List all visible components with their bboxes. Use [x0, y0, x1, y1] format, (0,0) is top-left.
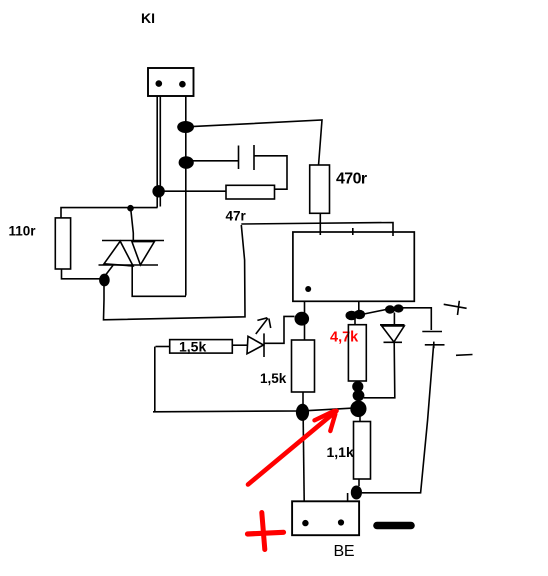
node junction blob J8	[350, 401, 366, 418]
thick black dash marker	[377, 522, 411, 530]
svg-text:47r: 47r	[226, 209, 247, 224]
node junction blob J4	[99, 274, 110, 287]
svg-text:4,7k: 4,7k	[330, 330, 359, 346]
wire 110r bottom to blob J4	[62, 269, 100, 279]
wire LED branch left vertical	[154, 347, 156, 412]
node blob chain below 4,7k lower	[353, 390, 365, 401]
wire J6 to 4,7k top	[354, 319, 356, 325]
pin dot 2 of KI	[179, 81, 186, 88]
LED D1 triangle	[247, 336, 264, 354]
wire 110r top to gate node	[61, 208, 158, 218]
capacitor C2 bottom plate	[425, 344, 445, 346]
wire J11 stub to BE box top	[347, 493, 349, 502]
node junction blob J7	[385, 305, 395, 313]
wire double line b from KI pin1	[159, 96, 161, 207]
node junction blob J2	[179, 156, 194, 169]
node junction blob J10	[296, 404, 309, 421]
LED D1 cathode bar	[263, 333, 265, 357]
wire J5 down to 1,5k vertical	[304, 325, 306, 341]
capacitor C1 right plate	[253, 145, 255, 170]
wire 1,1k bottom to J11	[358, 479, 360, 486]
X scribble mark	[444, 301, 467, 315]
diode D2 top line	[380, 324, 405, 326]
svg-text:KI: KI	[141, 10, 155, 26]
wire D2 down then left to J8	[364, 343, 395, 398]
wire triac bottom to pin2 line	[132, 266, 186, 297]
wire J10 down to BE box	[303, 420, 304, 502]
node junction blob J11	[351, 486, 362, 500]
svg-text:1,5k: 1,5k	[179, 339, 206, 355]
svg-text:BE: BE	[334, 543, 355, 560]
connector BE (terminal block)	[292, 501, 359, 535]
node junction blob J1	[177, 121, 194, 133]
capacitor C2 top plate	[422, 331, 442, 333]
pin dot 1 of KI	[156, 80, 163, 87]
wire J7 down to diode D2	[393, 313, 395, 325]
wire 1,5k to LED anode	[232, 344, 247, 346]
wire J7 right to capacitor C2	[402, 308, 431, 330]
triac V1 top line	[102, 240, 164, 242]
svg-text:470r: 470r	[336, 171, 367, 188]
pin dot 2 of BE	[338, 519, 344, 525]
triac V1 bottom line	[99, 264, 159, 266]
wire from KI pin2 down	[185, 96, 187, 296]
red annotation arrow	[248, 411, 337, 485]
resistor 1,1k	[354, 422, 371, 480]
resistor 1,5k horizontal	[170, 340, 233, 354]
node junction blob J3	[152, 185, 164, 197]
wire C1 right plate to 47r right end	[255, 156, 288, 189]
U1 bottom stub left	[304, 301, 306, 313]
diode D2 triangle	[382, 326, 404, 342]
capacitor C1 left plate	[238, 146, 240, 170]
C2 bottom tick	[433, 342, 435, 349]
U1 inner dot	[305, 286, 311, 292]
resistor 1,5k vertical	[292, 340, 315, 392]
svg-text:1,5k: 1,5k	[260, 371, 287, 386]
triac V1 right triangle	[132, 242, 155, 265]
red cross marker	[248, 513, 284, 550]
wire top rail y224 into box U1	[241, 223, 393, 237]
small dash mark	[456, 354, 473, 357]
U1 top tick	[352, 228, 354, 235]
wire C2 down to BE-right rail	[362, 346, 434, 493]
wire J8 to 1,1k top	[359, 416, 361, 423]
resistor 47r	[226, 185, 275, 199]
wire LED cathode to J5	[265, 316, 295, 343]
wire J1 to 470r top	[192, 120, 323, 166]
wire 1,5k vertical bottom to J10	[302, 392, 304, 405]
node blob chain below 4,7k upper	[352, 381, 363, 392]
svg-text:110r: 110r	[9, 224, 37, 239]
wire to 1,5k horizontal left	[156, 346, 171, 348]
wire J3 to 47r left end	[164, 190, 227, 192]
wire 470r bottom into box U1	[319, 213, 321, 235]
resistor 4,7k	[348, 325, 366, 381]
resistor 470r	[310, 165, 330, 213]
svg-text:1,1k: 1,1k	[327, 444, 354, 460]
resistor 110r	[55, 218, 70, 269]
wire J4 diagonal to triac bottom	[106, 265, 113, 274]
wire double line a from KI pin1	[156, 96, 158, 208]
U1 bottom stub mid	[358, 301, 360, 310]
wire J2 to capacitor C1	[192, 160, 238, 162]
wire J6 to J7	[364, 310, 386, 315]
wire bottom rail to J10 and J8	[153, 408, 351, 412]
node gate dot	[127, 205, 134, 212]
LED arrow barb right	[269, 319, 271, 329]
node junction blob J5	[295, 312, 310, 326]
diode D2 cathode bar	[384, 341, 403, 343]
connector KI (terminal block)	[148, 68, 194, 96]
LED arrow barb left	[257, 318, 267, 321]
IC box U1	[293, 232, 414, 301]
wire J4 down and bottom rail to 47r-junction riser	[104, 225, 246, 320]
LED arrow shaft	[256, 318, 268, 334]
node junction blob J6	[346, 311, 358, 321]
wire gate diagonal to triac	[131, 210, 134, 241]
triac V1 left triangle	[104, 241, 133, 266]
pin dot 1 of BE	[302, 520, 308, 526]
